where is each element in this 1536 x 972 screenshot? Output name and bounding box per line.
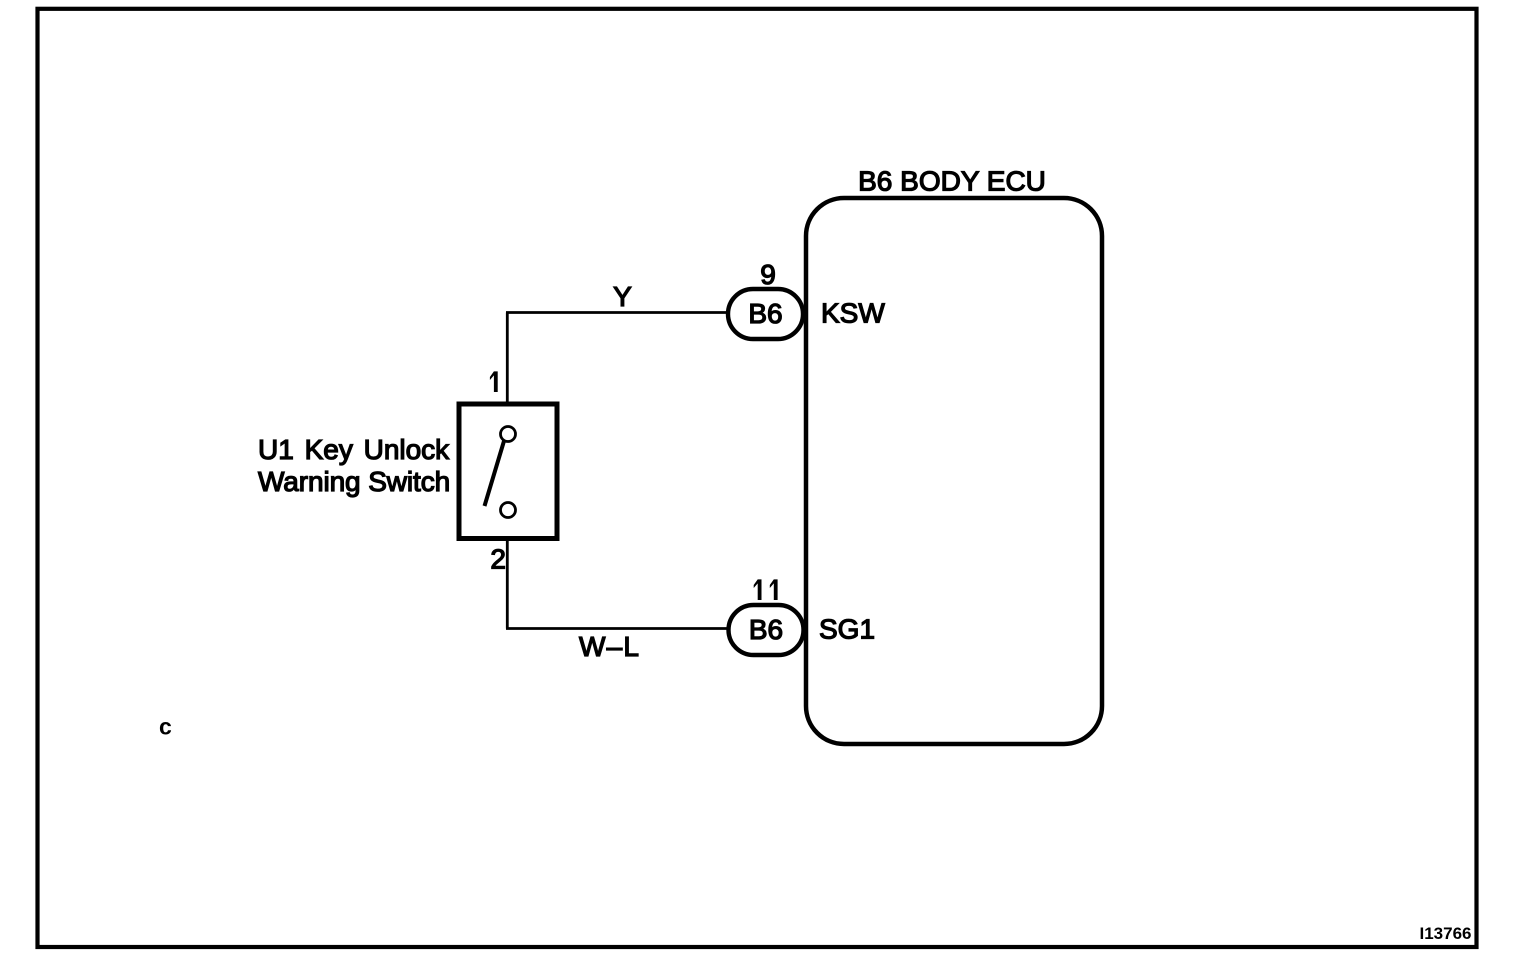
svg-text:U1 Key Unlock: U1 Key Unlock [258,434,450,465]
wire W-L vertical segment from switch pin 2 [506,518,509,629]
label U1 Key Unlock Warning Switch [258,434,450,497]
wire W-L horizontal segment to SG1 pin [506,627,727,630]
svg-text:SG1: SG1 [819,614,875,645]
pin number 1 [490,371,498,392]
svg-text:2: 2 [490,544,506,575]
switch U1 contact circle pin 1 [501,427,516,442]
svg-text:9: 9 [760,259,776,290]
wire Y horizontal segment to KSW pin [506,311,727,314]
svg-text:c: c [159,714,172,740]
pin number 11 [754,579,778,600]
switch U1 contact circle pin 2 [501,503,516,518]
ECU body outline (B6 BODY ECU) [806,198,1102,744]
svg-text:Warning Switch: Warning Switch [258,466,450,497]
svg-text:W–L: W–L [579,631,640,662]
svg-text:B6: B6 [749,614,783,645]
svg-text:Y: Y [613,281,632,312]
svg-text:KSW: KSW [821,298,885,329]
svg-text:B6 BODY ECU: B6 BODY ECU [858,166,1046,197]
svg-text:I13766: I13766 [1420,924,1472,943]
wire Y vertical segment from switch pin 1 [506,313,509,427]
svg-text:B6: B6 [748,298,782,329]
connector pin oval B6 (KSW pin) [728,289,803,339]
connector pin oval B6 (SG1 pin) [729,605,804,655]
switch U1 body box [459,404,557,539]
switch U1 lever [485,441,505,506]
